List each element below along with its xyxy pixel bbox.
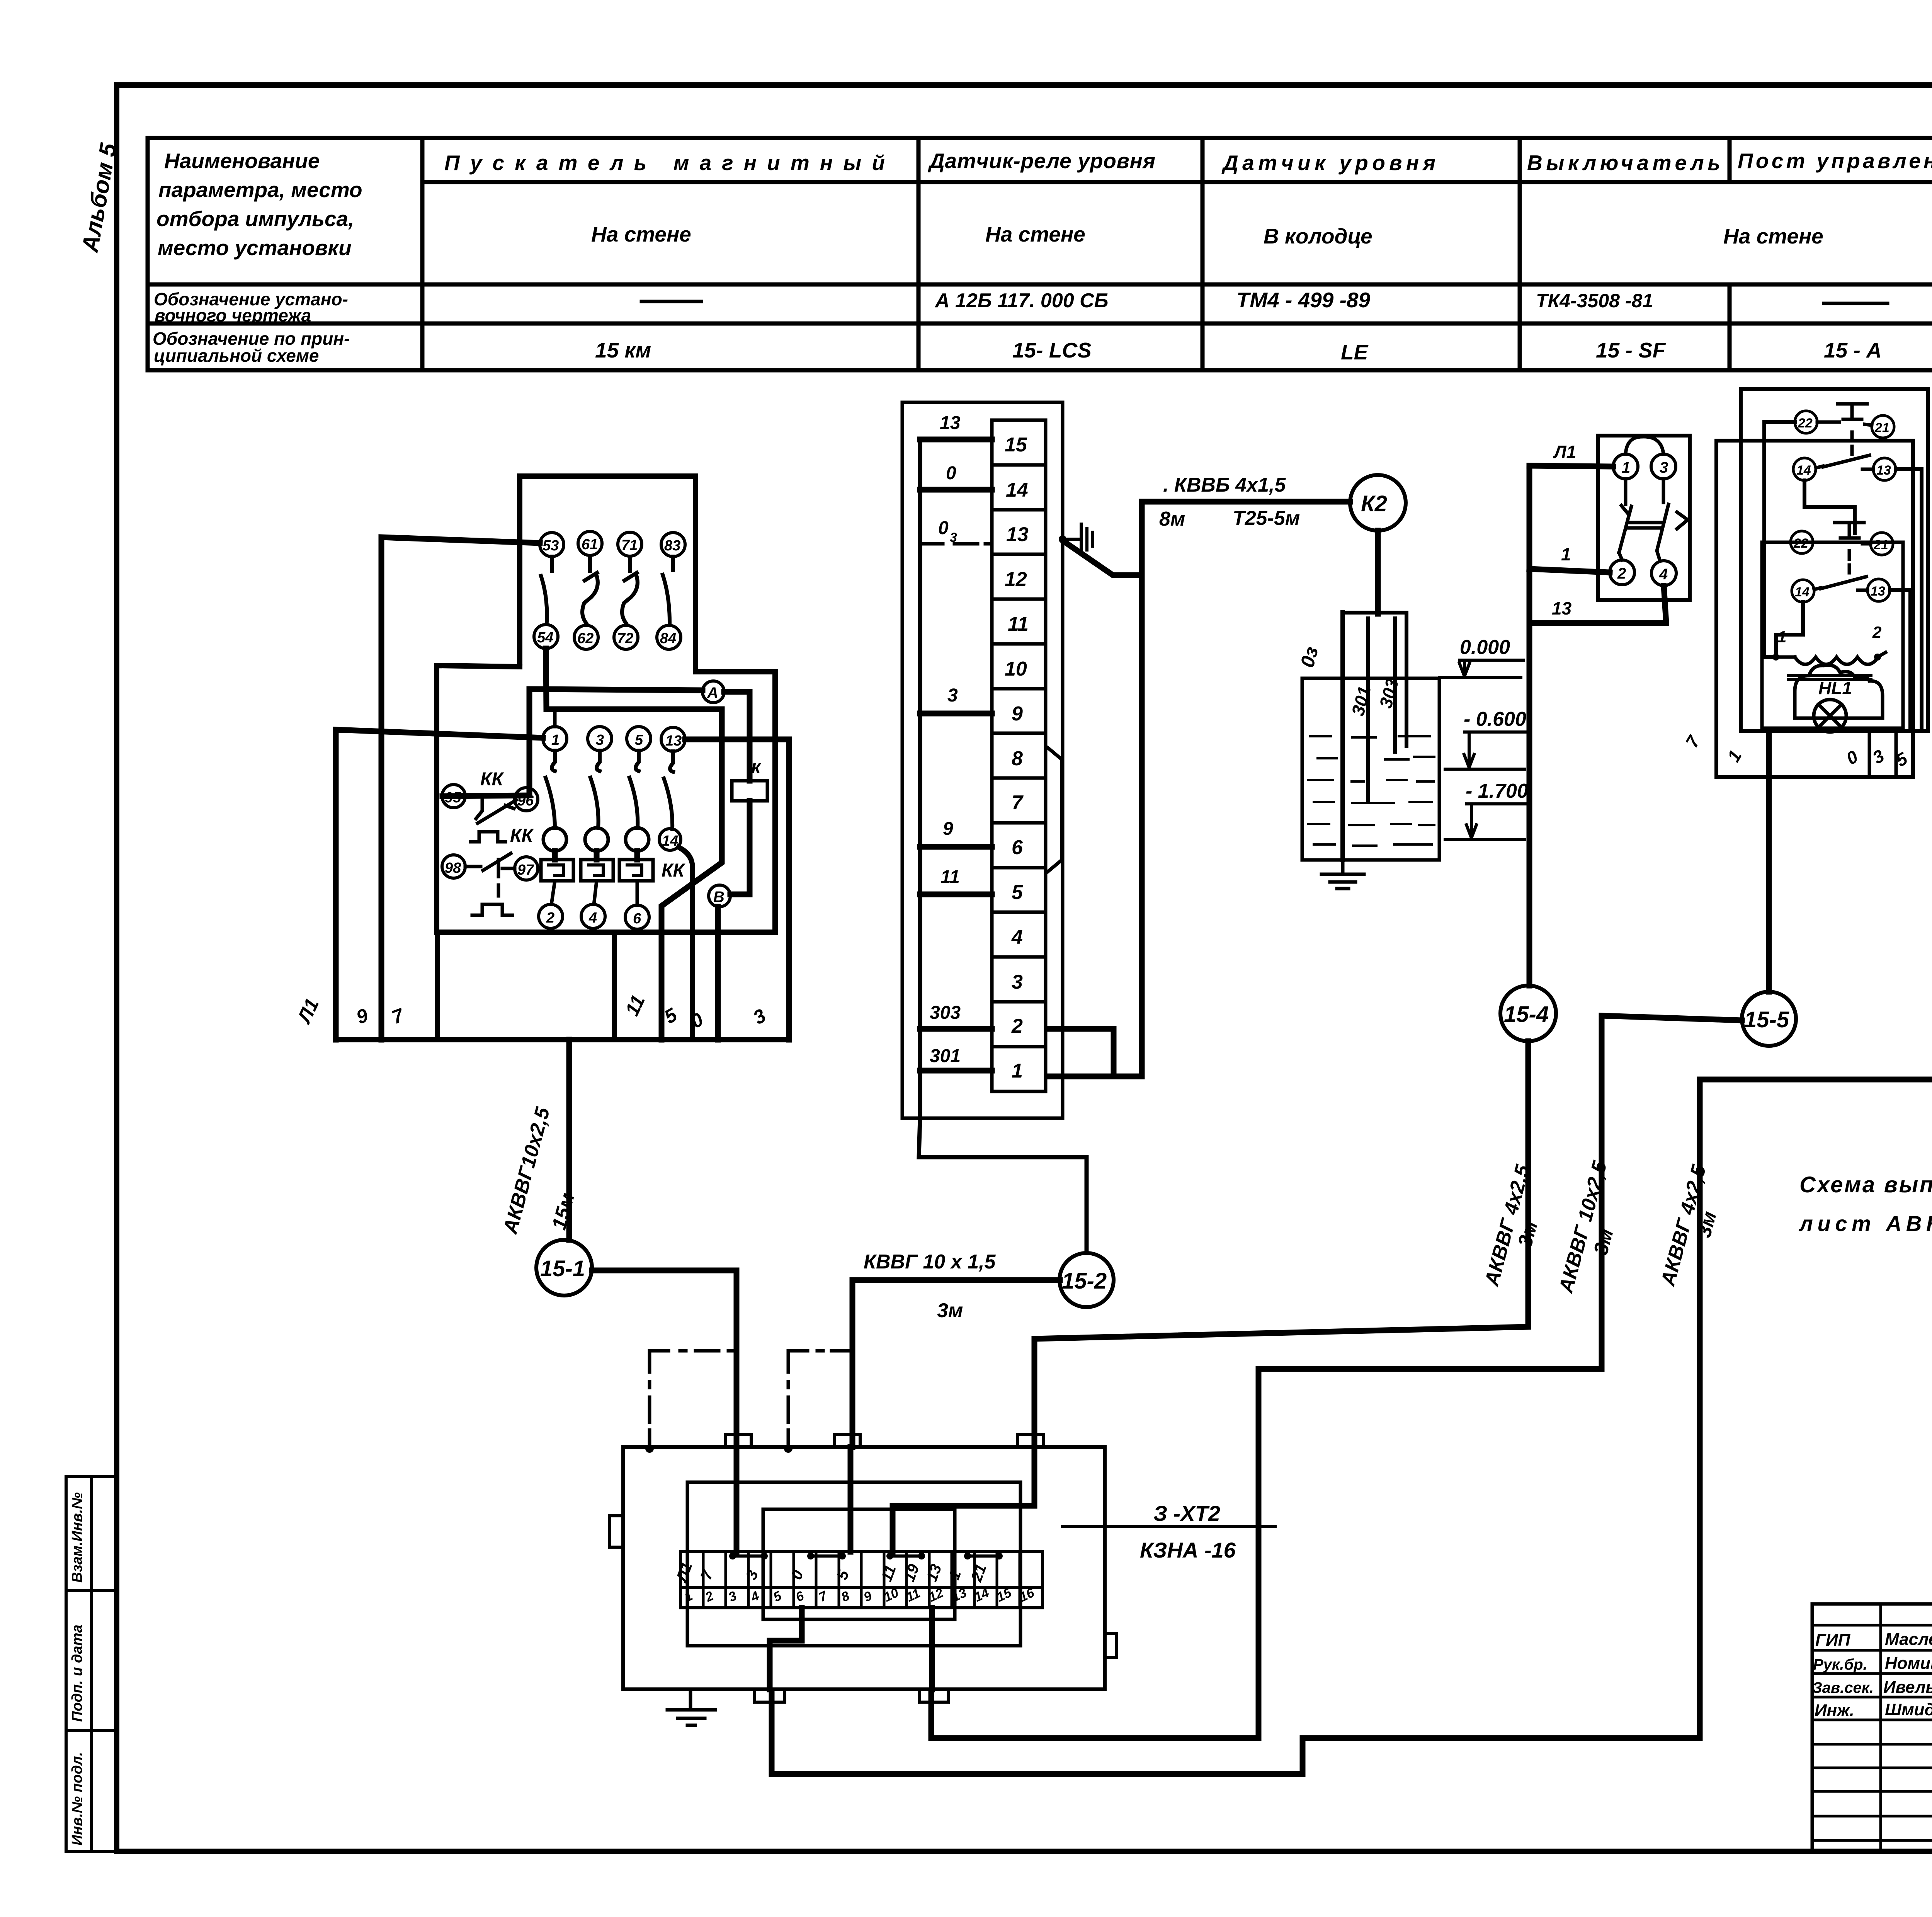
aux contact 71-72 [622,557,638,623]
terminal strip cells [992,420,1046,1091]
gland top 1 [726,1434,751,1447]
svg-text:15: 15 [1005,434,1027,456]
svg-text:2: 2 [546,910,554,926]
svg-text:14: 14 [662,833,678,849]
svg-text:Инв.№ подл.: Инв.№ подл. [69,1752,85,1845]
svg-text:22: 22 [1793,536,1808,551]
svg-text:3: 3 [1660,459,1668,476]
wire 15-1 to pump box [592,1270,736,1447]
control post outer box A [1741,389,1928,731]
svg-text:13: 13 [1006,523,1029,546]
aux pin 62 [574,625,598,649]
bridge circle phase 3 [585,828,608,851]
svg-text:13: 13 [1552,598,1572,618]
main contact pin 3 [588,727,612,751]
svg-text:0.000: 0.000 [1460,636,1510,659]
svg-text:0: 0 [938,518,949,538]
terminal left bus [919,439,1087,1253]
svg-text:3: 3 [596,732,604,748]
svg-text:4: 4 [1011,926,1023,948]
cable marker 15-1 [536,1240,592,1296]
title block outline [1812,1604,1932,1851]
aux contact 61-62 [582,557,598,623]
svg-text:10: 10 [1005,658,1027,680]
stop button head symbol [1817,404,1872,454]
pump junction box [623,1447,1105,1689]
svg-text:Номин: Номин [1885,1654,1932,1673]
pump strip dividers [703,1552,1020,1608]
wire 15-2 to pump box [852,1280,1060,1447]
terminal numbers 15..1 [1005,434,1029,1082]
svg-text:В колодце: В колодце [1264,224,1372,248]
svg-text:На стене: На стене [591,222,691,246]
svg-text:3м: 3м [937,1299,963,1322]
svg-text:1: 1 [1777,628,1786,646]
svg-text:ТК4-3508 -81: ТК4-3508 -81 [1536,290,1653,312]
thermal element phase 1 [552,851,558,860]
svg-text:1: 1 [1561,544,1571,564]
cable marker 15-5 [1742,992,1796,1046]
bus stub 303 [920,1026,992,1032]
main pin 4 [581,904,605,928]
aux pin 71 [618,532,642,556]
wire node A to coil K [724,692,750,781]
svg-text:3: 3 [947,685,958,706]
aux pin 53 [540,533,564,557]
pump box inner frame 2 [763,1509,955,1619]
cable drop to 15-1 [566,1040,572,1240]
svg-text:- 0.600: - 0.600 [1464,708,1526,730]
svg-text:3: 3 [1012,971,1023,993]
jumper links on strip [729,1553,1003,1559]
table col1 header text [153,149,362,366]
gland top 3 [1017,1434,1043,1447]
svg-text:15- LCS: 15- LCS [1012,338,1092,362]
wire 54 down, across, down and diagonal to wire 11 [546,649,722,1040]
svg-text:15 - А: 15 - А [1824,338,1882,362]
switch pin 1 [1613,454,1638,479]
starter main contact box [437,666,775,932]
svg-text:Шмидт: Шмидт [1885,1700,1932,1719]
table col4 датчик уровня [1221,151,1435,364]
stop button pin 14 [1793,458,1816,480]
table col6 пост управления [1738,149,1932,362]
table col3 датчик-реле [928,149,1155,362]
wire post box to 15-5 [1766,731,1772,992]
pump box ground [667,1689,715,1725]
electrode 0₃ (left, grounded) [1340,613,1345,860]
svg-text:Схема выполнена на основани: Схема выполнена на основании схемы управ… [1799,1172,1932,1197]
node B [709,885,730,907]
transformer core [1788,676,1871,679]
svg-text:84: 84 [660,630,676,647]
pump terminal strip lower row [680,1587,1043,1608]
svg-text:9: 9 [943,819,953,839]
signature table grid [1812,1604,1932,1851]
svg-text:В: В [713,889,724,906]
svg-text:1: 1 [551,732,560,748]
ground at terminal 13 [1059,535,1066,543]
svg-text:15-5: 15-5 [1744,1007,1789,1032]
svg-text:Рук.бр.: Рук.бр. [1813,1656,1867,1673]
svg-text:13: 13 [940,413,961,433]
bridge circle phase 1 [543,828,566,851]
wire Л1 to main contact 1 [336,730,543,1040]
svg-text:КК: КК [480,769,505,790]
post inner bottom wires [1869,731,1896,776]
wire terminal 1 out to K2 riser [1047,502,1350,1076]
label З-ХТ2 / КЗНА-16 [1063,1525,1275,1528]
bus stub 0 [920,487,992,493]
node A [702,681,724,703]
bus stub 11 [920,892,992,897]
pump strip numbers 1-16 [682,1585,1037,1605]
svg-text:11: 11 [940,867,960,887]
pump box inner frame 1 [687,1482,1020,1646]
wire start14 to transformer [1776,602,1803,654]
junction dot bracket 2 [784,1444,793,1453]
left margin stamp column [66,1476,117,1851]
svg-text:5: 5 [1012,881,1023,904]
svg-text:Масленнков: Масленнков [1885,1630,1932,1649]
svg-text:301: 301 [930,1046,961,1066]
svg-text:Подп. и дата: Подп. и дата [69,1624,85,1722]
svg-text:А 12Б 117. 000 СБ: А 12Б 117. 000 СБ [934,289,1108,312]
svg-text:95: 95 [445,790,461,806]
wire into node A from left [442,689,702,796]
well ground [1321,860,1364,889]
bus stub 301 [920,1068,992,1074]
wire 54-branch down to pin 1 [553,713,557,727]
transformer terminal 1 dot [1772,654,1779,661]
pump box internal wires to bottom glands [770,1608,932,1689]
svg-text:71: 71 [621,537,638,553]
dash-dot bracket 1 [650,1351,735,1447]
reset trip symbol [472,904,512,915]
wire 15-6 down-left to pump box [772,1050,1932,1774]
svg-text:КВВГ 10 х 1,5: КВВГ 10 х 1,5 [864,1251,996,1273]
bus stub 9 [920,844,992,850]
svg-text:На стене: На стене [985,222,1085,246]
cable 15-4 down to pump box [1034,1041,1528,1447]
dash-dot bracket 2 [788,1351,850,1447]
start button pin 13 [1867,579,1890,601]
svg-text:1: 1 [1622,459,1630,476]
98-97 contact lever with reset [465,853,515,896]
wire node B down (wire 0) [715,907,721,1040]
contact 3 hook and blade [590,751,600,828]
svg-text:ципиальной схеме: ципиальной схеме [154,346,319,366]
thermal relay pin 97 [515,857,538,880]
thermal element phase 3 [594,851,600,860]
svg-text:КК: КК [510,826,534,846]
svg-text:83: 83 [664,538,680,554]
svg-text:1: 1 [1012,1060,1023,1082]
lamp symbol [1814,700,1846,732]
svg-text:15-1: 15-1 [540,1256,585,1281]
svg-text:9: 9 [1012,703,1023,725]
signature rows text [1812,1630,1932,1720]
aux contact 83-84 [663,557,673,622]
wire 1 into switch [1529,569,1610,572]
svg-text:2: 2 [1617,565,1626,582]
svg-text:61: 61 [582,536,598,553]
svg-text:15 - SF: 15 - SF [1596,338,1666,362]
wire terminal 13 to K2 riser [1063,541,1142,575]
svg-text:ГИП: ГИП [1815,1631,1851,1650]
lamp HL1 scallop box [1795,665,1883,718]
table col2 магнитный пускатель [444,151,885,362]
svg-text:Взам.Инв.№: Взам.Инв.№ [69,1492,85,1583]
wire K2 down to electrode tube [1375,531,1381,614]
svg-text:4: 4 [588,910,597,926]
wire Л1 into switch [1529,466,1613,466]
aux pin 61 [578,531,602,555]
svg-text:12: 12 [1005,568,1027,591]
svg-text:21: 21 [1874,421,1889,435]
svg-text:ТМ4 - 499 -89: ТМ4 - 499 -89 [1236,288,1370,312]
wire 15-5 left and down to pump box [931,1016,1742,1738]
col6 dash [1824,302,1888,305]
svg-text:Т25-5м: Т25-5м [1233,507,1300,529]
wire terminal 2 out [1047,1029,1114,1076]
bus stub 3 [920,711,992,717]
switch pin 2 [1610,560,1634,585]
svg-text:к: к [751,757,762,777]
stop button pin 21 [1872,415,1894,438]
cable marker 15-4 [1500,986,1556,1041]
stop button pin 13 [1873,458,1896,480]
switch riser down to 15-4 [1527,466,1532,986]
svg-text:2: 2 [1011,1015,1023,1037]
control post outer box B [1716,441,1913,777]
svg-text:LE: LE [1341,340,1369,364]
svg-text:2: 2 [1872,623,1881,641]
svg-text:53: 53 [543,538,559,554]
svg-text:13: 13 [1876,463,1891,478]
svg-text:лист АВК - 16.: лист АВК - 16. [1798,1211,1932,1236]
svg-text:14: 14 [1795,585,1810,599]
svg-text:4: 4 [1659,566,1668,583]
gland right [1105,1634,1116,1657]
svg-text:7: 7 [1012,792,1024,814]
switch blades [1619,479,1688,561]
main contact pin 5 [627,727,651,751]
svg-text:HL1: HL1 [1818,678,1852,698]
table col5 выключатель [1527,151,1720,362]
pump box internal wires from glands [736,1447,1034,1552]
wire stop13 right riser [1896,469,1922,730]
gland bottom 1 [755,1689,785,1702]
svg-text:Л1: Л1 [1553,442,1576,462]
svg-text:параметра, место: параметра, место [158,178,362,202]
bus stub 13 [920,437,992,443]
col2 dash [641,300,701,303]
wire 13 into switch [1529,586,1666,623]
pump strip wire labels [673,1560,990,1585]
gland left [610,1516,623,1547]
switch pin 3 [1651,454,1676,479]
coil K [732,781,767,801]
svg-text:8: 8 [1012,747,1023,770]
electrode 301 [1366,618,1370,800]
water level dashes [1308,736,1434,846]
thermal relay pin 96 [515,788,538,811]
svg-text:Датчик-реле уровня: Датчик-реле уровня [928,149,1155,173]
junction dot bracket 1 [645,1444,654,1453]
terminal strip enclosure [902,402,1063,1118]
contact 5 hook and blade [629,751,639,828]
cable marker K2 [1350,475,1406,531]
main pin 6 [625,905,649,929]
svg-text:22: 22 [1798,416,1813,431]
well tank [1302,678,1439,860]
svg-text:0: 0 [946,463,956,484]
svg-text:вочного чертежа: вочного чертежа [155,305,311,325]
aux contact 53-54 [541,557,552,621]
svg-text:Выключатель: Выключатель [1527,151,1720,175]
gland bottom 2 [920,1689,948,1702]
wire stop14 to start21 [1804,480,1855,533]
main contact pin 13 [661,727,685,751]
switch box (15-SF) [1598,436,1690,600]
wire stop22 left riser [1764,422,1795,657]
aux pin 84 [657,625,681,649]
electrode tube [1343,613,1406,746]
svg-text:А: А [707,684,718,701]
main pin 2 [539,904,563,928]
stop button pin 22 [1795,411,1817,433]
svg-text:8м: 8м [1159,508,1185,530]
contact 13 hook and blade [664,751,673,829]
wires thermal to pins 2 4 6 [551,881,637,905]
wire pin 13 right then down (wire 3) [685,739,789,1040]
svg-text:62: 62 [577,630,594,647]
gland top 2 [834,1434,860,1447]
control post inner box C [1762,542,1903,728]
svg-text:отбора импульса,: отбора импульса, [156,207,354,231]
svg-text:13: 13 [665,733,682,749]
svg-text:3: 3 [950,530,957,545]
thermal relay pin 95 [442,785,465,808]
bottom wire from contact box [612,932,617,1040]
switch pin 4 [1651,561,1676,586]
svg-text:6: 6 [633,911,641,927]
svg-text:14: 14 [1796,463,1811,478]
svg-text:Пост управления: Пост управления [1738,149,1932,173]
thermal element phase 5 [634,851,640,860]
svg-text:На стене: На стене [1723,224,1823,248]
svg-text:15 км: 15 км [595,338,651,362]
wire coil K to node B [730,801,750,894]
svg-text:место установки: место установки [158,236,352,260]
svg-text:96: 96 [517,793,534,809]
svg-text:72: 72 [617,630,633,647]
start button head symbol [1813,523,1871,573]
start button pin 21 [1871,533,1893,555]
svg-text:6: 6 [1012,836,1023,859]
contact 1 hook and blade [546,751,555,828]
svg-text:15-2: 15-2 [1062,1268,1107,1294]
stop button contact blade [1817,455,1873,469]
svg-text:З -ХТ2: З -ХТ2 [1153,1501,1220,1525]
aux pin 83 [661,533,685,557]
svg-text:Ивельской: Ивельской [1883,1678,1932,1697]
thermal relay pin 98 [442,855,465,878]
transformer terminal 2 dot [1874,654,1881,661]
wire 9 from pin 53 [381,537,540,1040]
aux pin 54 [534,625,558,649]
95-96 contact lever [465,796,516,823]
wire start13 right riser [1890,590,1910,728]
start button pin 22 [1791,531,1813,553]
svg-text:54: 54 [537,630,553,646]
wire 7 from aux box corner [435,932,440,1040]
svg-text:15-4: 15-4 [1504,1002,1549,1027]
svg-text:13: 13 [1871,584,1885,599]
svg-text:Наименование: Наименование [164,149,320,173]
starter aux contact box [520,476,696,672]
transformer primary coil [1779,652,1886,664]
svg-text:97: 97 [517,862,534,878]
svg-text:. КВВБ 4х1,5: . КВВБ 4х1,5 [1163,474,1286,496]
start button pin 14 [1792,580,1814,602]
svg-text:14: 14 [1006,479,1028,501]
svg-text:- 1.700: - 1.700 [1466,780,1528,802]
starter bottom bus [336,1037,789,1042]
cable marker 15-2 [1060,1253,1114,1307]
start button contact blade [1814,577,1867,590]
thermal trip symbol KK [471,832,505,842]
svg-text:11: 11 [1008,613,1029,635]
switch link top 1-3 [1626,437,1663,454]
pump terminal strip upper row [680,1552,1043,1587]
aux pin 72 [614,625,638,649]
svg-text:5: 5 [635,732,643,748]
electrode 303 [1393,618,1397,752]
svg-text:Инж.: Инж. [1815,1701,1854,1720]
svg-text:21: 21 [1873,538,1888,552]
main contact pin 1 [543,727,567,751]
bus stub 0₃ dashed [920,542,992,546]
svg-text:98: 98 [445,860,461,876]
bracket at cells 6-8 [1048,748,1062,872]
svg-text:Зав.сек.: Зав.сек. [1812,1679,1874,1696]
equipment table grid [148,138,1932,370]
svg-text:КЗНА -16: КЗНА -16 [1140,1538,1236,1562]
bridge circle phase 5 [626,828,649,851]
aux pin 14 [659,829,681,850]
svg-text:КК: КК [662,860,686,881]
wire 14 down to wire 5 [679,847,692,1040]
svg-text:К2: К2 [1361,491,1387,516]
svg-text:303: 303 [930,1003,961,1023]
